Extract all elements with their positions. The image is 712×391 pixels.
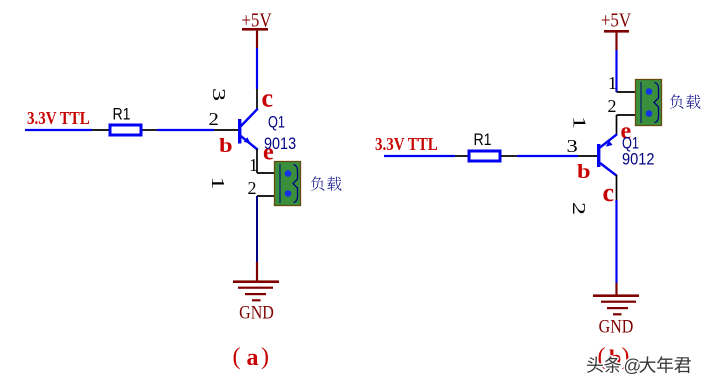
svg-text:1: 1 bbox=[569, 116, 589, 129]
svg-text:a: a bbox=[247, 345, 259, 371]
svg-text:b: b bbox=[219, 134, 233, 156]
svg-text:3: 3 bbox=[567, 137, 578, 156]
svg-text:(: ( bbox=[233, 344, 241, 370]
svg-text:1: 1 bbox=[208, 176, 228, 189]
svg-text:GND: GND bbox=[599, 315, 634, 337]
svg-text:+5V: +5V bbox=[241, 9, 272, 30]
svg-text:2: 2 bbox=[209, 110, 219, 129]
svg-text:): ) bbox=[261, 344, 269, 370]
svg-text:R1: R1 bbox=[474, 131, 492, 149]
svg-text:3.3V TTL: 3.3V TTL bbox=[375, 134, 438, 154]
svg-text:1: 1 bbox=[608, 73, 617, 93]
svg-text:9012: 9012 bbox=[622, 151, 655, 169]
svg-text:3.3V TTL: 3.3V TTL bbox=[27, 108, 90, 128]
svg-text:Q1: Q1 bbox=[268, 113, 285, 132]
svg-text:R1: R1 bbox=[113, 105, 131, 123]
svg-text:2: 2 bbox=[569, 202, 589, 215]
svg-text:2: 2 bbox=[608, 96, 617, 116]
svg-text:9013: 9013 bbox=[264, 135, 296, 153]
svg-text:3: 3 bbox=[209, 88, 229, 101]
svg-text:GND: GND bbox=[239, 301, 274, 323]
svg-text:c: c bbox=[603, 178, 615, 207]
svg-text:+5V: +5V bbox=[601, 9, 632, 30]
svg-text:c: c bbox=[262, 84, 274, 113]
svg-text:b: b bbox=[577, 160, 591, 182]
svg-text:1: 1 bbox=[249, 155, 258, 175]
svg-text:2: 2 bbox=[248, 178, 257, 198]
